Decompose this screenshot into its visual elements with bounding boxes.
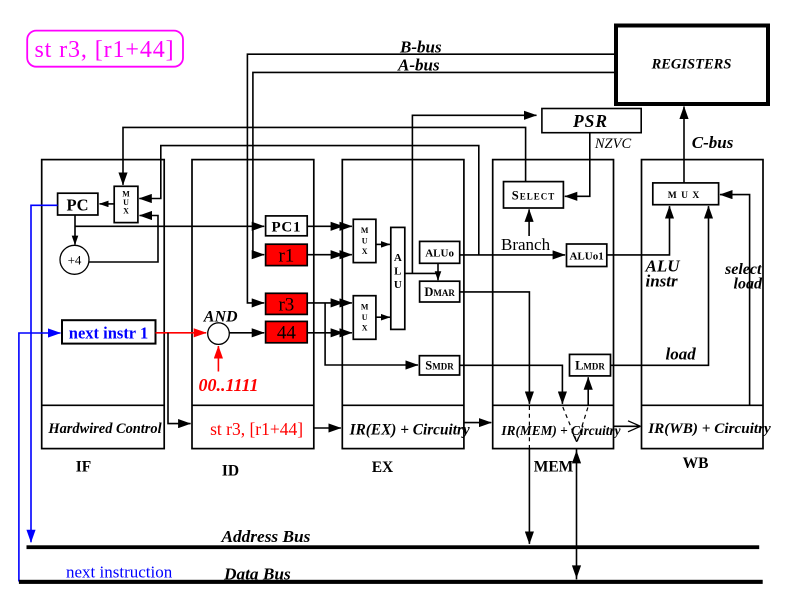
svg-text:instr: instr xyxy=(646,272,679,291)
svg-text:X: X xyxy=(123,207,129,216)
wire Data Bus to next instr 1 (blue) xyxy=(19,333,61,582)
svg-text:st r3, [r1+44]: st r3, [r1+44] xyxy=(210,419,303,439)
label Branch xyxy=(501,235,551,254)
label MEM xyxy=(534,459,574,476)
wire 44 to EX-MUX-B xyxy=(307,328,352,337)
register DMAR xyxy=(420,281,460,302)
wire EX IR to MEM IR xyxy=(464,422,491,424)
wire memory to LMDR xyxy=(587,377,589,405)
svg-text:B-bus: B-bus xyxy=(399,37,442,56)
wire +4 to IF-MUX xyxy=(89,216,158,263)
wire SMDR to memory xyxy=(460,365,563,404)
svg-text:A: A xyxy=(394,252,402,264)
register SMDR xyxy=(419,356,459,375)
svg-text:Dmar: Dmar xyxy=(424,285,455,299)
svg-text:IR(MEM) + Circuitry: IR(MEM) + Circuitry xyxy=(500,423,620,438)
title box 'st r3, [r1+44]' xyxy=(27,31,183,67)
wire EX-MUX-B to ALU xyxy=(376,316,390,318)
svg-text:load: load xyxy=(734,276,763,293)
svg-text:REGISTERS: REGISTERS xyxy=(651,56,732,72)
svg-text:U: U xyxy=(362,313,368,322)
svg-text:r1: r1 xyxy=(278,245,294,266)
svg-text:next instr 1: next instr 1 xyxy=(69,324,148,343)
mux EX-MUX-B xyxy=(353,296,376,340)
label load (wire) xyxy=(666,345,697,364)
register next instr 1 xyxy=(62,320,156,343)
label AND xyxy=(203,308,238,325)
wire A-bus xyxy=(253,72,616,254)
stage box MEM xyxy=(493,160,614,449)
label Hardwired Control xyxy=(47,421,161,437)
wire IF-MUX to PC xyxy=(100,203,115,205)
mux IF-MUX xyxy=(114,186,138,222)
svg-text:AND: AND xyxy=(203,308,238,325)
svg-text:M: M xyxy=(361,226,369,235)
label next instruction (blue) xyxy=(66,563,173,582)
label ALU instr xyxy=(645,257,681,291)
label st r3 in ID IR xyxy=(210,419,303,439)
svg-text:M: M xyxy=(361,303,369,312)
label Data Bus xyxy=(223,565,291,584)
svg-text:ID: ID xyxy=(222,463,239,480)
wire ALUo to IF-MUX (branch target) xyxy=(139,146,479,255)
svg-text:ALUo1: ALUo1 xyxy=(569,251,603,263)
wire instr down to ID IR xyxy=(168,333,191,424)
svg-text:Select: Select xyxy=(512,189,555,203)
alu ALU xyxy=(391,227,405,329)
wire DMAR to memory xyxy=(460,292,530,404)
svg-text:PSR: PSR xyxy=(572,111,608,131)
wire r3 branch to SMDR xyxy=(325,303,418,365)
mux EX-MUX-A xyxy=(353,219,376,262)
bus Data Bus xyxy=(19,580,763,584)
svg-text:X: X xyxy=(362,247,368,256)
label 00..1111 xyxy=(199,375,259,395)
bus Address Bus xyxy=(27,545,760,549)
svg-text:ALUo: ALUo xyxy=(425,248,454,260)
svg-text:PC1: PC1 xyxy=(271,219,301,235)
select unit SELECT xyxy=(504,182,564,208)
wire r1 to EX-MUX-A xyxy=(307,250,352,259)
wire ALU to PSR xyxy=(412,115,536,273)
svg-text:Hardwired Control: Hardwired Control xyxy=(47,421,161,437)
wire MEM IR to WB IR (open arrow) xyxy=(614,421,641,432)
svg-text:Smdr: Smdr xyxy=(425,359,454,373)
wire WB-MUX to REGISTERS (C-bus) xyxy=(683,107,685,183)
register r1 xyxy=(266,244,308,266)
label A-bus xyxy=(397,56,440,75)
wire next instr 1 to AND (red) xyxy=(156,332,207,334)
svg-text:r3: r3 xyxy=(278,294,294,315)
svg-text:PC: PC xyxy=(67,195,89,214)
svg-text:IR(EX) + Circuitry: IR(EX) + Circuitry xyxy=(349,421,470,438)
svg-text:44: 44 xyxy=(277,323,297,344)
svg-text:Lmdr: Lmdr xyxy=(575,359,605,373)
wire ALU out xyxy=(405,272,438,274)
label IF xyxy=(76,459,92,476)
svg-text:next instruction: next instruction xyxy=(66,563,173,582)
label IR(EX) + Circuitry xyxy=(349,421,470,438)
svg-text:U: U xyxy=(362,237,368,246)
svg-text:MEM: MEM xyxy=(534,459,574,476)
label IR(WB) + Circuitry xyxy=(647,420,771,437)
svg-text:L: L xyxy=(394,266,401,278)
register ALUo xyxy=(420,241,460,263)
svg-text:load: load xyxy=(666,345,697,364)
svg-text:M U X: M U X xyxy=(668,191,700,201)
label Address Bus xyxy=(221,527,311,546)
register PSR xyxy=(542,109,641,133)
svg-text:00..1111: 00..1111 xyxy=(199,375,259,395)
stage box IF xyxy=(42,160,165,449)
wire PC1 to EX-MUX-A xyxy=(307,222,352,231)
register r3 xyxy=(266,293,308,315)
svg-text:NZVC: NZVC xyxy=(594,136,632,152)
label IR(MEM) + Circuitry xyxy=(500,423,620,438)
wire Branch into SELECT xyxy=(528,209,530,236)
gate AND circle xyxy=(208,323,230,345)
svg-text:+4: +4 xyxy=(68,253,82,268)
dashed store path in memory xyxy=(563,407,580,442)
wire opcode mask to AND (red) xyxy=(217,346,219,372)
svg-text:IF: IF xyxy=(76,459,92,476)
wire IR(WB) select to WB-MUX xyxy=(720,195,750,406)
wire B-bus xyxy=(247,54,616,303)
label select load xyxy=(724,261,763,293)
svg-text:WB: WB xyxy=(683,455,709,472)
wire PC down to +4 xyxy=(74,215,76,245)
svg-text:Address Bus: Address Bus xyxy=(221,527,311,546)
register ALUo1 xyxy=(567,244,607,267)
svg-text:A-bus: A-bus xyxy=(397,56,440,75)
mux WB-MUX xyxy=(653,183,719,205)
register PC xyxy=(58,193,98,215)
label B-bus xyxy=(399,37,442,56)
wire PC to Address Bus (blue) xyxy=(31,205,58,542)
svg-text:Branch: Branch xyxy=(501,235,551,254)
label C-bus xyxy=(692,133,734,152)
adder +4 xyxy=(60,245,89,274)
wire AND to 44 xyxy=(229,332,264,334)
stage box ID xyxy=(192,160,314,449)
svg-text:X: X xyxy=(362,324,368,333)
register 44 xyxy=(266,321,308,343)
wire ID IR to EX IR xyxy=(314,427,341,429)
label EX xyxy=(372,459,394,476)
svg-text:U: U xyxy=(394,279,402,291)
wire ALUo1 to WB-MUX xyxy=(607,206,670,255)
svg-text:C-bus: C-bus xyxy=(692,133,734,152)
wire memory to Data Bus xyxy=(572,449,581,579)
wire LMDR to WB-MUX xyxy=(611,206,709,365)
label WB xyxy=(683,455,709,472)
dashed address path in memory xyxy=(528,406,530,448)
wire EX-MUX-A to ALU xyxy=(376,243,390,245)
wire PSR NZVC to SELECT xyxy=(565,134,590,197)
register LMDR xyxy=(570,354,611,376)
stage box EX xyxy=(342,160,464,449)
label NZVC xyxy=(594,136,632,152)
register PC1 xyxy=(266,216,308,236)
svg-text:st r3, [r1+44]: st r3, [r1+44] xyxy=(34,37,174,63)
wire ALUo to DMAR xyxy=(437,263,439,280)
wire PC to PC1 xyxy=(75,225,264,227)
wire memory to Address Bus xyxy=(528,449,530,544)
wire r3 to EX-MUX-B xyxy=(307,298,352,307)
svg-text:Data Bus: Data Bus xyxy=(223,565,291,584)
dashed load path in memory xyxy=(577,407,588,441)
svg-text:IR(WB) + Circuitry: IR(WB) + Circuitry xyxy=(647,420,771,437)
wire ALUo to ALUo1 xyxy=(460,254,565,256)
wire SELECT to IF-MUX xyxy=(123,127,526,184)
register file REGISTERS xyxy=(616,26,768,105)
label ID xyxy=(222,463,239,480)
svg-text:EX: EX xyxy=(372,459,394,476)
stage box WB xyxy=(642,160,764,449)
